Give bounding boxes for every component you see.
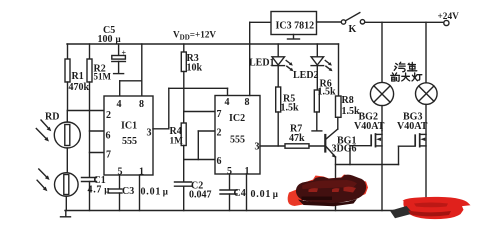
- svg-text:4: 4: [225, 97, 230, 108]
- ground under R6: [312, 130, 322, 132]
- svg-text:1.5k: 1.5k: [342, 106, 361, 117]
- svg-text:1M: 1M: [170, 137, 184, 147]
- svg-text:6: 6: [106, 131, 111, 142]
- svg-text:7: 7: [217, 109, 222, 120]
- ground left: [65, 211, 67, 217]
- photoresistor RD upper: [54, 122, 80, 148]
- svg-text:IC2: IC2: [229, 113, 245, 124]
- svg-text:555: 555: [230, 135, 245, 146]
- svg-text:8: 8: [245, 97, 250, 108]
- transistor Q1 BG1 3DG6: [324, 135, 326, 152]
- resistor R5: [276, 87, 281, 112]
- wire IC1 pin1: [139, 175, 141, 211]
- svg-text:8: 8: [139, 99, 144, 110]
- svg-text:V40AT: V40AT: [397, 121, 428, 132]
- lamp 2 (headlight): [425, 22, 427, 83]
- LED2: [316, 44, 318, 57]
- wire BG3 gate: [399, 145, 416, 147]
- op-amp U2 IC2 555 box: [215, 96, 260, 175]
- wire IC2 pin2 bracket: [197, 131, 199, 160]
- wire IC2 pin3: [260, 145, 285, 147]
- photoresistor RD lower: [55, 173, 79, 197]
- switch K: [341, 20, 345, 24]
- wire IC2 pin7: [184, 111, 215, 113]
- transistor Q3 BG3 V40AT mosfet: [419, 134, 421, 147]
- wire PD junction: [66, 148, 68, 173]
- svg-text:5: 5: [118, 167, 123, 178]
- wire IC1 pin7: [90, 152, 105, 154]
- wire IC2 pin1: [246, 174, 248, 211]
- capacitor C1: [82, 177, 97, 179]
- wire IC2 pin5: [229, 174, 231, 190]
- light arrows into RD lower: [39, 169, 47, 178]
- resistor R3: [183, 44, 185, 52]
- ground under C5: [114, 73, 124, 75]
- LED1: [277, 44, 279, 57]
- wire IC1 pins 4,8 to rail: [141, 44, 143, 96]
- svg-text:47k: 47k: [289, 133, 305, 144]
- transistor Q2 BG2 V40AT mosfet: [381, 131, 383, 211]
- wire IC2 pin6: [184, 159, 215, 161]
- resistor R8: [338, 44, 340, 96]
- capacitor C5: [118, 44, 120, 56]
- 汽: [394, 62, 405, 72]
- svg-text:100μ: 100μ: [98, 34, 121, 45]
- LED1 light arrows: [286, 61, 291, 65]
- svg-text:51M: 51M: [94, 72, 112, 82]
- svg-text:0.047: 0.047: [189, 190, 212, 201]
- svg-text:7: 7: [106, 150, 111, 161]
- svg-text:1.5k: 1.5k: [281, 103, 300, 114]
- capacitor C3: [108, 188, 122, 190]
- wire BG2 gate riser: [349, 146, 351, 165]
- capacitor C4: [220, 189, 237, 191]
- svg-text:C3: C3: [122, 186, 134, 197]
- svg-text:10k: 10k: [187, 63, 203, 74]
- lamp 1 (headlight): [381, 22, 383, 82]
- op-amp U1 IC1 555 box: [104, 96, 153, 175]
- capacitor C2: [183, 160, 185, 182]
- wire IC1 pin5: [119, 175, 121, 189]
- svg-text:2: 2: [106, 110, 111, 121]
- svg-text:5: 5: [227, 166, 232, 177]
- 车: [408, 62, 417, 71]
- svg-text:470k: 470k: [69, 82, 90, 93]
- wire IC3 to switch: [317, 21, 342, 23]
- 前: [391, 73, 400, 81]
- 灯: [412, 73, 422, 81]
- svg-text:LED1: LED1: [249, 58, 275, 69]
- svg-text:6: 6: [217, 156, 222, 167]
- light arrows into RD upper: [41, 120, 49, 129]
- svg-text:R4: R4: [170, 126, 182, 137]
- label 汽车 前大灯 (custom glyph strokes): [391, 62, 422, 81]
- svg-text:3: 3: [147, 128, 152, 139]
- watermark blob center (red car): [288, 175, 368, 207]
- svg-text:4: 4: [117, 99, 122, 110]
- svg-text:V40AT: V40AT: [354, 121, 385, 132]
- svg-text:RD: RD: [45, 112, 59, 123]
- 大: [402, 73, 410, 81]
- svg-text:R8: R8: [342, 95, 354, 106]
- wire IC1 pin6: [90, 130, 105, 132]
- svg-text:+24V: +24V: [438, 12, 460, 22]
- wire ground rail: [65, 210, 424, 212]
- svg-text:1: 1: [245, 166, 250, 177]
- ground under IC3: [293, 35, 295, 39]
- LED2 light arrows: [325, 61, 330, 65]
- svg-text:C4: C4: [234, 188, 246, 199]
- terminal +24V: [444, 20, 449, 25]
- svg-text:3: 3: [255, 142, 260, 153]
- wire +12V rail: [67, 43, 339, 45]
- svg-text:0.01μ: 0.01μ: [251, 189, 279, 200]
- wire gate bus: [336, 164, 399, 166]
- resistor R1: [67, 44, 69, 59]
- resistor R2: [89, 44, 91, 59]
- svg-text:IC1: IC1: [121, 121, 137, 132]
- svg-text:555: 555: [122, 136, 137, 147]
- svg-text:LED2: LED2: [293, 70, 319, 81]
- resistor R7: [285, 144, 309, 148]
- svg-text:+: +: [122, 49, 127, 58]
- wire BG1 emitter to ground: [335, 157, 337, 211]
- wire IC2 pin8 to rail: [249, 44, 251, 96]
- resistor R6: [314, 90, 319, 112]
- svg-text:K: K: [349, 24, 357, 35]
- wire switch to +24V: [365, 21, 444, 23]
- regulator IC3 7812 box: [249, 22, 251, 44]
- svg-text:4.7μ: 4.7μ: [88, 185, 111, 196]
- svg-text:2: 2: [217, 128, 222, 139]
- wire BG2 gate: [350, 145, 371, 147]
- watermark blob bottom right: [390, 197, 471, 219]
- svg-text:3DG6: 3DG6: [332, 144, 357, 155]
- svg-text:1: 1: [139, 167, 144, 178]
- wire IC1 pin2: [68, 110, 105, 112]
- svg-text:R1: R1: [72, 71, 84, 82]
- resistor R4: [183, 112, 185, 124]
- svg-text:IC3 7812: IC3 7812: [276, 21, 315, 32]
- wire IC1 pin3 to IC2 pin4: [153, 128, 169, 130]
- svg-text:1.5k: 1.5k: [318, 87, 337, 98]
- svg-text:0.01μ: 0.01μ: [141, 187, 169, 198]
